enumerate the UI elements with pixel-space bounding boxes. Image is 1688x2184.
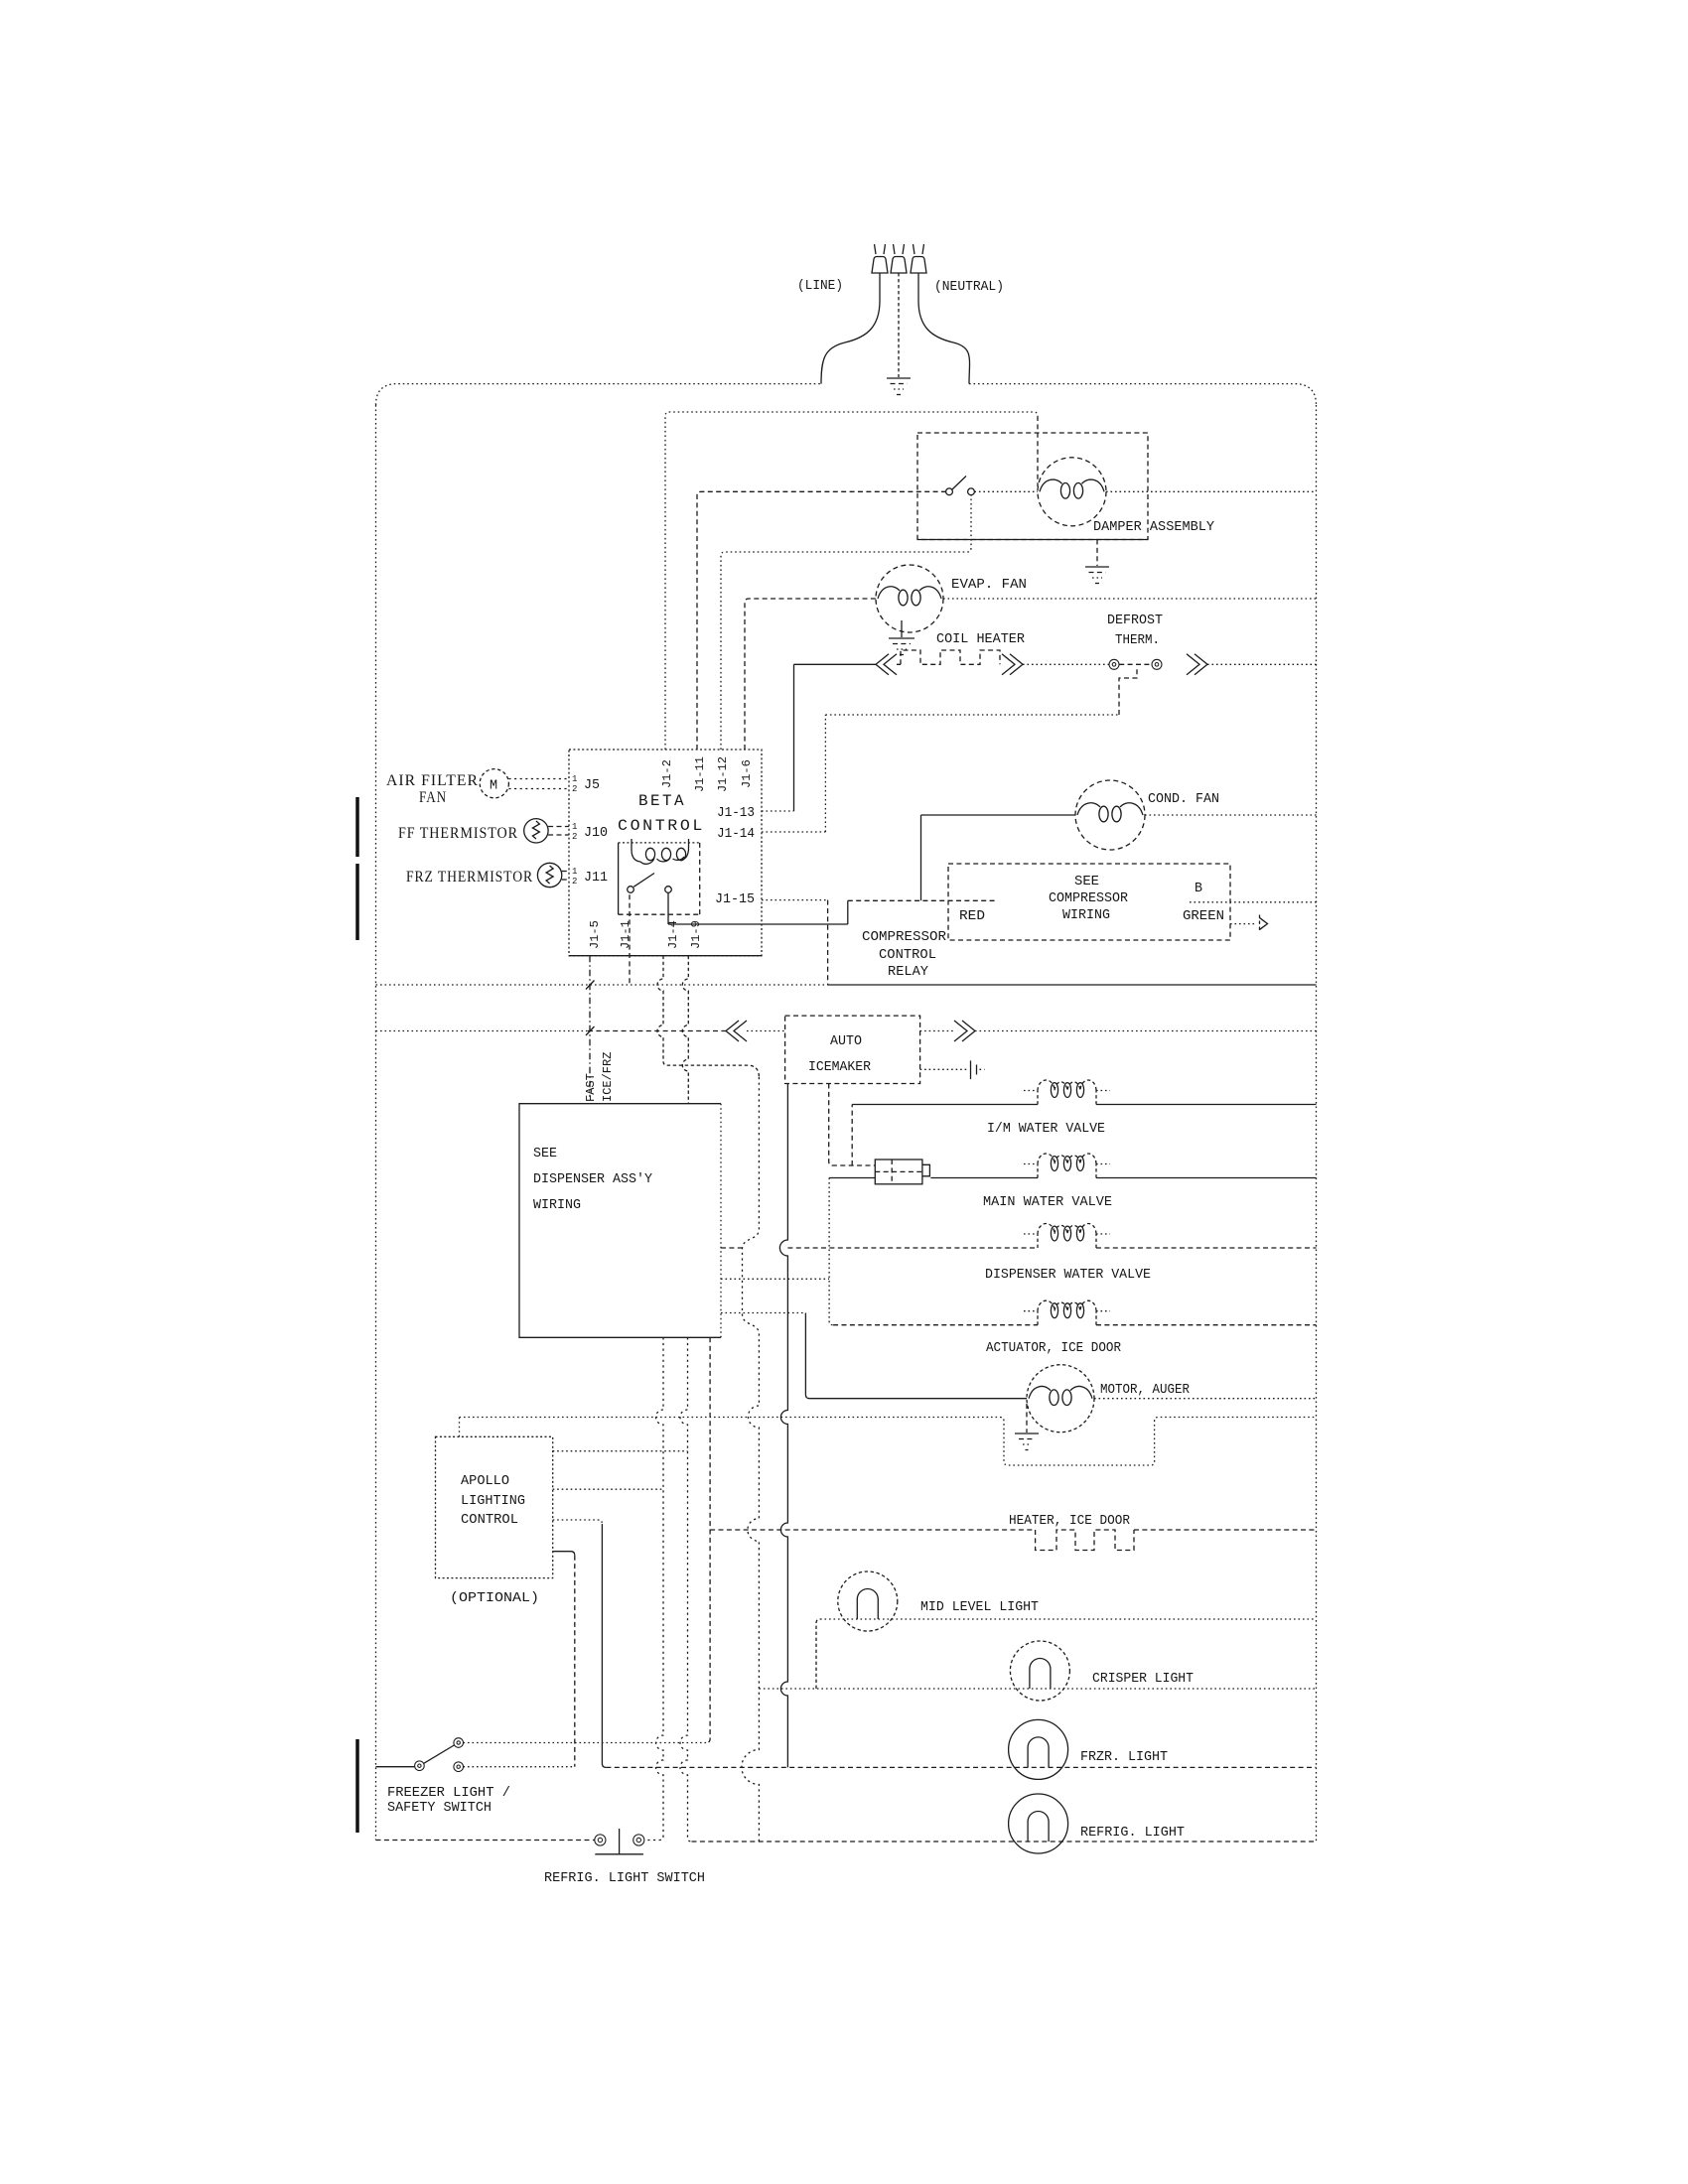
wire apollo out2: [553, 1488, 663, 1490]
slash J1-5 at y992: [586, 981, 595, 990]
svg-text:WIRING: WIRING: [533, 1198, 581, 1213]
wire apollo top line with auger detour: [460, 1418, 1317, 1466]
wire J1-14 to defrost thermostat: [762, 715, 1119, 832]
fold mark bar upper: [355, 797, 359, 857]
svg-text:ACTUATOR, ICE DOOR: ACTUATOR, ICE DOOR: [986, 1341, 1121, 1356]
svg-text:J1-11: J1-11: [693, 756, 707, 792]
ground symbol auger: [1015, 1433, 1039, 1434]
svg-text:DISPENSER ASS'Y: DISPENSER ASS'Y: [533, 1172, 652, 1187]
plug prong line: [872, 257, 888, 274]
svg-text:REFRIG. LIGHT SWITCH: REFRIG. LIGHT SWITCH: [544, 1871, 705, 1886]
auto icemaker box: [785, 1016, 920, 1083]
outer border top edge right part + top-right corner: [969, 384, 1317, 405]
svg-text:1: 1: [572, 867, 577, 877]
refrig switch terminal left: [595, 1835, 606, 1845]
solenoid DISPENSER water valve L3: [1037, 1234, 1039, 1248]
defrost thermostat terminal right: [1152, 659, 1162, 669]
beta control box: [569, 750, 762, 956]
svg-text:CONTROL: CONTROL: [461, 1513, 518, 1528]
wire icemaker bottom drop: [829, 1084, 876, 1166]
refrig light LP4: [1009, 1794, 1068, 1853]
wire M1 to J5 pin2: [508, 788, 569, 790]
svg-text:COMPRESSOR: COMPRESSOR: [1049, 891, 1128, 906]
outer border right edge: [1316, 405, 1318, 1842]
plug prong ground: [891, 257, 907, 274]
solenoid ACTUATOR ice door L4: [1037, 1311, 1039, 1325]
svg-text:(OPTIONAL): (OPTIONAL): [450, 1591, 539, 1606]
wire dispenser valve line left: [721, 1247, 743, 1249]
wire mid level light line: [820, 1618, 1317, 1620]
wire vertical fuse-left drop: [829, 1178, 833, 1325]
wire refrig light line: [692, 1841, 1317, 1843]
wire auger riser: [805, 1313, 1027, 1399]
wire v692 box to refrig line: [680, 1337, 692, 1842]
wire icemaker out1: [920, 1030, 954, 1032]
arrow right coil heater: [1002, 654, 1015, 675]
wire icemaker out2: [920, 1068, 968, 1070]
svg-text:J1-5: J1-5: [588, 920, 602, 949]
wire J1-11 to damper switch: [697, 491, 946, 750]
wire J1-5 fast ice line: [589, 956, 591, 1097]
svg-text:LIGHTING: LIGHTING: [461, 1494, 525, 1509]
svg-text:DEFROST: DEFROST: [1107, 614, 1163, 628]
svg-text:WIRING: WIRING: [1062, 908, 1110, 923]
damper switch contact right: [968, 488, 975, 495]
wire frzr light line: [606, 1766, 1316, 1768]
safety switch terminal bottom right: [454, 1762, 464, 1772]
svg-text:FAN: FAN: [419, 789, 447, 806]
svg-text:J1-1: J1-1: [619, 920, 633, 949]
svg-text:J11: J11: [584, 871, 608, 886]
wire line prong to border: [821, 273, 880, 384]
apollo lighting control box: [436, 1436, 553, 1577]
svg-text:GREEN: GREEN: [1183, 909, 1224, 924]
wire crisper light line: [759, 1688, 1316, 1690]
relay K1 box: [619, 842, 700, 844]
wire M1 to J5 pin1: [508, 778, 569, 780]
svg-text:(NEUTRAL): (NEUTRAL): [934, 280, 1004, 295]
wire border to safety switch: [376, 1766, 415, 1768]
green chassis arrow: [1259, 915, 1261, 932]
svg-text:SEE: SEE: [1074, 875, 1099, 889]
svg-text:2: 2: [572, 832, 577, 842]
wire ground prong: [898, 273, 900, 377]
wire main valve line left: [829, 1177, 875, 1179]
svg-text:J1-2: J1-2: [660, 759, 674, 788]
wire relay contact to compressor RED: [668, 892, 848, 924]
svg-text:FAST: FAST: [584, 1073, 598, 1102]
damper switch blade: [952, 477, 966, 490]
svg-text:DISPENSER WATER VALVE: DISPENSER WATER VALVE: [985, 1268, 1151, 1283]
wire safety switch top line: [464, 1742, 707, 1744]
wire icemaker feed line: [376, 1030, 589, 1032]
wire heater line right: [1134, 1529, 1317, 1531]
wire J1-1 below box: [629, 894, 631, 985]
wire icemaker feed right part: [747, 1030, 785, 1032]
icemaker connector: [970, 1060, 972, 1079]
svg-text:J1-13: J1-13: [717, 806, 755, 821]
svg-text:B: B: [1195, 882, 1202, 896]
svg-text:2: 2: [572, 784, 577, 794]
frzr light LP3: [1009, 1719, 1068, 1779]
svg-text:MID LEVEL LIGHT: MID LEVEL LIGHT: [920, 1600, 1039, 1615]
wire main valve line right: [1096, 1177, 1317, 1179]
svg-text:HEATER, ICE DOOR: HEATER, ICE DOOR: [1009, 1514, 1130, 1529]
outer border left edge: [375, 405, 377, 1841]
wire J1-6 to evap fan: [745, 599, 876, 750]
wire safety switch bottom line: [464, 1766, 575, 1768]
see dispenser assy wiring box: [519, 1104, 721, 1338]
coil heater element R1: [897, 650, 1000, 664]
plug prong neutral: [911, 257, 926, 274]
svg-text:AIR FILTER: AIR FILTER: [386, 772, 479, 789]
wire main valve line mid: [930, 1177, 1038, 1179]
svg-text:APOLLO: APOLLO: [461, 1474, 509, 1489]
wire damper motor to right border: [1106, 490, 1317, 492]
relay K1 blade: [633, 874, 654, 887]
svg-text:2: 2: [572, 877, 577, 887]
relay K1 contact left: [628, 887, 634, 893]
evap fan motor M3: [876, 565, 943, 632]
crisper light LP2: [1010, 1641, 1069, 1701]
svg-text:COMPRESSOR: COMPRESSOR: [862, 930, 946, 945]
heater element R2 teeth: [1036, 1530, 1134, 1551]
wire damper ground lead: [1096, 540, 1098, 567]
damper motor M2: [1038, 458, 1106, 526]
wire RT1 pin2: [548, 834, 569, 836]
svg-text:J1-14: J1-14: [717, 827, 755, 842]
apollo top riser: [459, 1418, 461, 1437]
wire apollo out4: [553, 1552, 575, 1556]
wire actuator line left: [833, 1324, 1038, 1326]
svg-text:J10: J10: [584, 826, 608, 841]
auger ground lead: [1026, 1404, 1028, 1433]
svg-text:BETA: BETA: [638, 792, 686, 810]
svg-text:J1-15: J1-15: [715, 892, 755, 907]
svg-text:FRZR. LIGHT: FRZR. LIGHT: [1080, 1750, 1168, 1765]
svg-text:J1-12: J1-12: [716, 756, 730, 792]
svg-text:THERM.: THERM.: [1115, 633, 1160, 648]
wire v793 icemaker to frzr line: [779, 1084, 787, 1768]
wire J1-9 vertical with hops: [682, 956, 688, 1104]
compressor wiring box: [948, 864, 1230, 940]
outer border bottom edge left segment: [376, 1840, 595, 1842]
svg-text:FRZ THERMISTOR: FRZ THERMISTOR: [406, 869, 533, 886]
arrow right icemaker: [954, 1021, 967, 1041]
wire v715 box to safety switch line: [706, 1337, 710, 1742]
outer border top-left + top edge left part: [376, 384, 822, 405]
wire box output D3 to auger riser: [721, 1312, 805, 1314]
wire dispenser valve line mid: [787, 1247, 1038, 1249]
wire apollo out1: [553, 1450, 688, 1452]
svg-text:EVAP. FAN: EVAP. FAN: [951, 578, 1027, 593]
svg-text:REFRIG. LIGHT: REFRIG. LIGHT: [1080, 1826, 1185, 1841]
arrow left coil heater: [876, 654, 889, 675]
svg-text:SAFETY SWITCH: SAFETY SWITCH: [387, 1801, 492, 1816]
thermistor RT2: [537, 863, 561, 887]
svg-text:MOTOR, AUGER: MOTOR, AUGER: [1100, 1383, 1190, 1398]
ground symbol evap fan: [889, 637, 914, 639]
safety switch terminal top right: [454, 1738, 464, 1748]
svg-text:CONTROL: CONTROL: [879, 948, 936, 963]
slash J1-5 at y1038: [586, 1026, 595, 1035]
wire mid light drop: [816, 1619, 820, 1689]
air filter fan motor M1: [480, 769, 508, 798]
safety switch blade: [424, 1745, 455, 1763]
wire cond fan to right border: [1145, 814, 1317, 816]
wire J1-12 to damper switch: [721, 495, 971, 750]
wire I/M water valve line left: [852, 1104, 1038, 1106]
safety switch terminal left: [415, 1761, 425, 1771]
relay K1 coil: [632, 839, 640, 862]
wire GREEN output: [1230, 923, 1255, 925]
svg-text:I/M WATER VALVE: I/M WATER VALVE: [987, 1122, 1105, 1137]
svg-text:J1-6: J1-6: [740, 759, 754, 788]
wire RT1 pin1: [548, 826, 569, 828]
ground symbol power cord: [887, 377, 911, 379]
svg-text:M: M: [490, 779, 497, 794]
wire J1-15 drop to line: [827, 900, 829, 985]
damper switch contact left: [946, 488, 953, 495]
svg-text:AUTO: AUTO: [830, 1034, 862, 1049]
relay K1 contact right: [665, 887, 672, 893]
svg-text:RELAY: RELAY: [888, 965, 928, 980]
wire J1-4 vertical with hops: [657, 956, 759, 1077]
wire fuse riser to IM valve line: [851, 1105, 853, 1166]
wire J1-15 pin stub: [762, 899, 828, 901]
wire between defrost terminals: [1119, 663, 1152, 665]
svg-text:DAMPER ASSEMBLY: DAMPER ASSEMBLY: [1093, 520, 1214, 535]
wire box output D2: [721, 1278, 829, 1280]
wire v668 apollo to refrig switch: [644, 1337, 663, 1840]
svg-text:CONTROL: CONTROL: [618, 817, 705, 835]
wire line y992 solid part: [828, 984, 1317, 986]
arrow left icemaker: [726, 1021, 739, 1041]
defrost thermostat terminal left: [1109, 659, 1119, 669]
wire cond fan left: [921, 815, 1076, 900]
svg-text:FREEZER LIGHT /: FREEZER LIGHT /: [387, 1786, 510, 1801]
wire evap fan to right border: [943, 598, 1317, 600]
thermistor RT1: [524, 819, 548, 843]
wire RT2 pin1: [562, 871, 569, 873]
auger motor M5: [1027, 1365, 1094, 1433]
svg-text:1: 1: [572, 822, 577, 832]
wire J1-2 to damper coil: [665, 412, 1038, 750]
svg-text:CRISPER LIGHT: CRISPER LIGHT: [1092, 1672, 1194, 1687]
svg-text:FF THERMISTOR: FF THERMISTOR: [398, 825, 518, 842]
evap fan ground lead: [901, 620, 903, 637]
svg-text:ICE/FRZ: ICE/FRZ: [601, 1052, 615, 1102]
svg-text:ICEMAKER: ICEMAKER: [808, 1060, 871, 1075]
wire actuator line right: [1096, 1324, 1317, 1326]
wire RT2 pin2: [562, 879, 569, 881]
svg-text:COND. FAN: COND. FAN: [1148, 792, 1219, 807]
wire v764 J1-4 branch down: [742, 1077, 760, 1842]
cond fan motor M4: [1075, 780, 1145, 850]
svg-text:(LINE): (LINE): [797, 279, 843, 294]
wire defrost to right border: [1207, 663, 1317, 665]
svg-text:COIL HEATER: COIL HEATER: [936, 632, 1025, 647]
svg-text:SEE: SEE: [533, 1147, 557, 1161]
wire apollo out3: [553, 1520, 603, 1524]
wire line y992 dotted part: [376, 984, 828, 986]
ground symbol damper: [1085, 566, 1109, 568]
wire J1-13 to coil heater: [762, 810, 794, 812]
fold mark bar middle: [355, 864, 359, 940]
wire auger line to border: [1094, 1398, 1317, 1400]
wire dispenser valve line right: [1096, 1247, 1317, 1249]
wire icemaker out1 to border: [975, 1030, 1317, 1032]
svg-text:MAIN WATER VALVE: MAIN WATER VALVE: [983, 1195, 1112, 1210]
svg-text:RED: RED: [959, 909, 985, 924]
wire B to right border: [1190, 901, 1317, 903]
fold mark bar lower: [355, 1739, 359, 1833]
wire heater line left: [710, 1529, 1036, 1531]
refrig switch terminal right: [633, 1835, 644, 1845]
wire apollo out3 drop to frzr line: [602, 1524, 606, 1767]
solenoid MAIN water valve L2: [1037, 1164, 1039, 1178]
refrig switch plunger: [595, 1829, 643, 1854]
wire neutral prong to border: [918, 273, 970, 384]
arrow right defrost: [1187, 654, 1199, 675]
wire coil heater to defrost: [1023, 663, 1109, 665]
wire damper switch to motor: [974, 490, 1038, 492]
fuse/connector block: [875, 1160, 922, 1184]
wire I/M water valve line right: [1096, 1104, 1317, 1106]
damper assembly box: [917, 433, 1148, 540]
svg-text:J5: J5: [584, 778, 600, 793]
mid level light LP1: [838, 1571, 898, 1631]
svg-text:1: 1: [572, 774, 577, 784]
solenoid I/M water valve L1: [1037, 1091, 1039, 1105]
